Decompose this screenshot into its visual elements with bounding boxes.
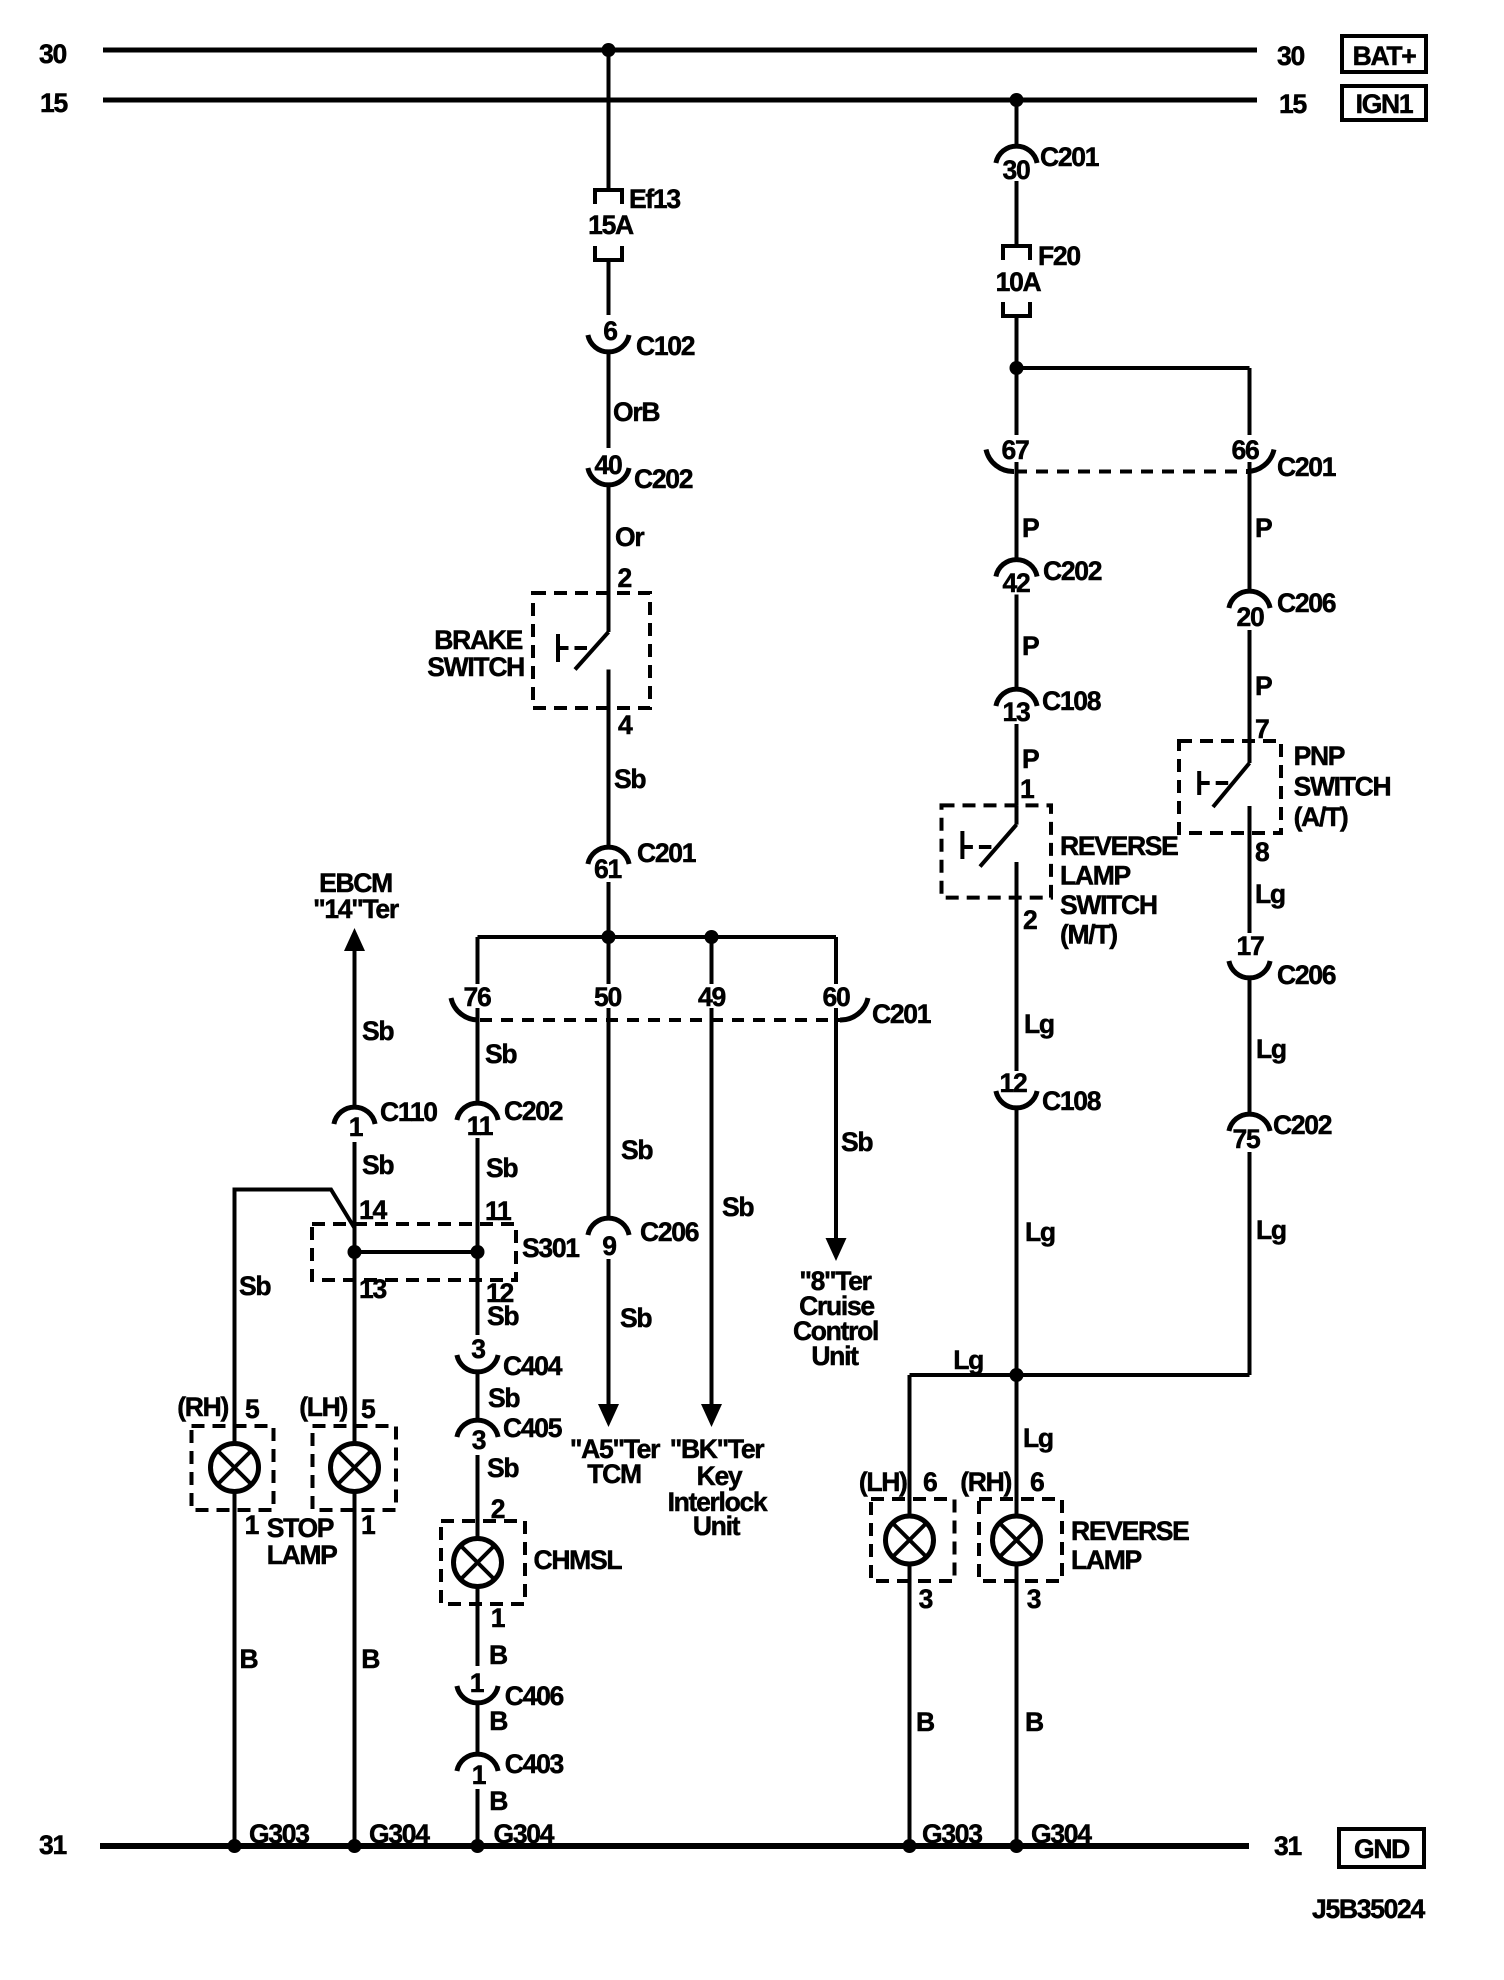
svg-text:15: 15 <box>1279 89 1306 119</box>
wire Sb: C201 pin 49 to key interlock unit <box>710 1020 714 1405</box>
svg-text:B: B <box>240 1644 258 1674</box>
svg-text:C404: C404 <box>503 1351 563 1381</box>
svg-text:Lg: Lg <box>1256 1215 1286 1245</box>
connector C202 pin 11 <box>457 1103 498 1120</box>
connector C206 pin 17 <box>1229 961 1270 978</box>
wire P: C202 pin 42 to C108 pin 13 <box>1015 595 1019 690</box>
wire: junction to C201 pin 67 <box>1015 368 1019 435</box>
svg-text:Lg: Lg <box>953 1345 983 1375</box>
svg-text:F20: F20 <box>1038 241 1080 271</box>
svg-text:Lg: Lg <box>1025 1217 1055 1247</box>
wire Sb: S301 pin 12 to connector C404 pin 3 <box>476 1252 480 1335</box>
svg-text:LAMP: LAMP <box>1071 1545 1141 1575</box>
wire Sb: C404 to C405 pin 3 <box>476 1372 480 1420</box>
svg-text:(A/T): (A/T) <box>1294 802 1348 832</box>
connector C102 pin 6 <box>588 335 629 352</box>
connector C202 pin 75 <box>1229 1114 1270 1131</box>
PNP switch (box) <box>1179 741 1281 833</box>
svg-text:11: 11 <box>467 1111 493 1141</box>
svg-text:G304: G304 <box>494 1819 555 1849</box>
node: tap on rail 30 feeding fuse Ef13 <box>602 43 616 57</box>
svg-text:C202: C202 <box>634 464 693 494</box>
svg-text:Sb: Sb <box>486 1153 518 1183</box>
svg-text:3: 3 <box>471 1334 485 1364</box>
wire: bus to C201 pin 50 <box>607 937 611 984</box>
svg-text:15: 15 <box>40 88 67 118</box>
svg-text:PNP: PNP <box>1294 741 1345 771</box>
svg-text:J5B35024: J5B35024 <box>1312 1894 1425 1924</box>
svg-text:67: 67 <box>1002 435 1029 465</box>
svg-text:11: 11 <box>485 1196 511 1226</box>
svg-text:1: 1 <box>491 1603 505 1633</box>
bus 31 (GND rail) <box>100 1843 1249 1849</box>
wire: bus to C201 pin 76 <box>476 937 480 984</box>
box BAT+ <box>1342 36 1426 72</box>
wire: rail 30 to fuse Ef13 <box>607 50 611 190</box>
node: reverse lamp feed junction <box>1010 1368 1024 1382</box>
svg-text:1: 1 <box>472 1760 486 1790</box>
svg-text:1: 1 <box>1020 774 1034 804</box>
CHMSL lamp bulb <box>454 1539 502 1587</box>
svg-text:50: 50 <box>594 982 621 1012</box>
svg-text:Sb: Sb <box>620 1303 652 1333</box>
wire B: C403 to ground G304 <box>476 1789 480 1846</box>
svg-text:LAMP: LAMP <box>267 1540 337 1570</box>
svg-text:Lg: Lg <box>1256 1034 1286 1064</box>
svg-text:C110: C110 <box>380 1097 437 1127</box>
svg-text:G304: G304 <box>1031 1819 1092 1849</box>
svg-text:TCM: TCM <box>587 1459 641 1489</box>
bus 15 (IGN1 rail) <box>103 98 1257 103</box>
svg-text:61: 61 <box>594 854 621 884</box>
svg-text:Sb: Sb <box>722 1192 754 1222</box>
node: S301 splice right junction <box>471 1245 485 1259</box>
svg-text:(RH): (RH) <box>960 1467 1011 1497</box>
svg-text:30: 30 <box>1003 155 1030 185</box>
svg-text:Unit: Unit <box>811 1341 859 1371</box>
ground node G304 (CHMSL) <box>471 1839 485 1853</box>
svg-text:C201: C201 <box>1040 142 1099 172</box>
svg-text:"BK"Ter: "BK"Ter <box>670 1434 765 1464</box>
svg-text:30: 30 <box>39 39 66 69</box>
connector C201 (pins 76 50 49 60) <box>451 998 479 1020</box>
svg-text:49: 49 <box>698 982 725 1012</box>
reverse lamp switch (box) <box>942 805 1052 897</box>
reverse lamp LH (box) <box>871 1499 955 1581</box>
arrow to EBCM <box>344 928 365 951</box>
wire Lg: C108 pin 12 to reverse lamp junction <box>1015 1108 1019 1375</box>
svg-text:Sb: Sb <box>614 764 646 794</box>
svg-text:3: 3 <box>472 1425 486 1455</box>
wire: C201 pin 30 to fuse F20 <box>1015 181 1019 246</box>
svg-text:5: 5 <box>245 1394 259 1424</box>
wire Lg: C202 pin 75 down to junction bar <box>1248 1152 1252 1375</box>
svg-text:S301: S301 <box>522 1233 579 1263</box>
connector C108 pin 13 <box>996 689 1037 706</box>
wire: reverse lamp switch pin 2 to C108 pin 12 <box>1015 862 1019 1071</box>
svg-text:CHMSL: CHMSL <box>534 1545 623 1575</box>
svg-text:P: P <box>1022 744 1039 774</box>
connector C202 pin 42 <box>996 560 1037 577</box>
wire: splice bar inside S301 <box>355 1250 478 1254</box>
wire P: C206 pin 20 to PNP switch pin 7 <box>1248 630 1252 741</box>
wire: PNP branch joining junction bar <box>1017 1373 1250 1377</box>
svg-text:12: 12 <box>1000 1068 1027 1098</box>
wire B: CHMSL pin 1 to C406 pin 1 <box>476 1586 480 1666</box>
connector C403 pin 1 <box>457 1754 498 1771</box>
svg-text:C201: C201 <box>1277 452 1336 482</box>
wire P: C108 pin 13 to reverse lamp switch pin 1 <box>1015 724 1019 805</box>
svg-text:13: 13 <box>1003 697 1030 727</box>
ground node G304 (RH reverse lamp) <box>1010 1839 1024 1853</box>
wire B: RH reverse lamp pin 3 to ground G304 <box>1015 1564 1019 1847</box>
svg-text:Sb: Sb <box>487 1453 519 1483</box>
wire B: RH stop lamp pin 1 to ground G303 <box>233 1491 237 1846</box>
svg-text:1: 1 <box>361 1510 375 1540</box>
reverse lamp LH bulb <box>886 1516 934 1564</box>
svg-text:(RH): (RH) <box>177 1392 228 1422</box>
svg-text:G303: G303 <box>922 1819 982 1849</box>
wire Or: C202 to brake switch pin 2 <box>607 485 611 593</box>
svg-text:B: B <box>361 1644 379 1674</box>
svg-text:40: 40 <box>595 450 622 480</box>
wire Sb: C405 to CHMSL pin 2 <box>476 1455 480 1539</box>
svg-text:Sb: Sb <box>841 1127 873 1157</box>
svg-text:Sb: Sb <box>362 1016 394 1046</box>
svg-text:GND: GND <box>1354 1834 1410 1864</box>
svg-text:B: B <box>916 1707 934 1737</box>
svg-text:17: 17 <box>1237 931 1264 961</box>
svg-text:"14"Ter: "14"Ter <box>313 894 399 924</box>
wire Sb: C201 pin 50 to C206 pin 9 <box>607 1020 611 1218</box>
wire: PNP switch pin 8 to C206 pin 17 <box>1248 806 1252 933</box>
wire B: C406 to C403 pin 1 <box>476 1703 480 1754</box>
connector C206 pin 9 <box>588 1218 629 1235</box>
svg-text:SWITCH: SWITCH <box>1294 772 1391 802</box>
wire Sb: branch from S301 to RH stop lamp <box>235 1190 355 1445</box>
connector C202 pin 40 <box>588 468 629 485</box>
wire Sb: C110 to splice S301 pin 14 <box>353 1142 357 1252</box>
wire: rail 15 to connector C201 pin 30 <box>1015 100 1019 146</box>
wire: C201 pin 61 down to distribution bus <box>607 882 611 937</box>
reverse lamp RH bulb <box>993 1516 1041 1564</box>
wire P: C201 pin 67 to C202 pin 42 <box>1015 472 1019 560</box>
svg-text:OrB: OrB <box>613 397 659 427</box>
connector C405 pin 3 <box>457 1420 498 1437</box>
svg-text:C108: C108 <box>1042 1086 1101 1116</box>
bus 30 (BAT+ rail) <box>103 48 1257 53</box>
wire Lg: junction bar to LH reverse lamp <box>910 1373 1017 1377</box>
ground node G303 (LH reverse lamp) <box>903 1839 917 1853</box>
svg-text:66: 66 <box>1232 435 1259 465</box>
svg-text:C206: C206 <box>1277 588 1336 618</box>
svg-text:2: 2 <box>618 563 632 593</box>
connector C108 pin 12 <box>996 1091 1037 1108</box>
svg-text:C206: C206 <box>1277 960 1336 990</box>
reverse lamp switch contacts <box>1015 805 1019 824</box>
svg-text:6: 6 <box>1030 1467 1044 1497</box>
svg-text:C202: C202 <box>1043 556 1102 586</box>
wire: drop to C201 pin 66 <box>1248 368 1252 435</box>
wire Sb: C206 pin 9 to TCM terminal A5 <box>607 1259 611 1405</box>
connector C110 pin 1 <box>334 1107 375 1124</box>
svg-text:8: 8 <box>1255 837 1269 867</box>
svg-text:REVERSE: REVERSE <box>1071 1516 1189 1546</box>
svg-text:1: 1 <box>245 1510 259 1540</box>
svg-text:1: 1 <box>470 1668 484 1698</box>
svg-text:1: 1 <box>349 1112 363 1142</box>
arrow to TCM <box>598 1404 619 1427</box>
wire: junction across to pin 66 drop <box>1017 366 1250 370</box>
arrow to cruise control unit <box>826 1238 847 1261</box>
svg-text:C405: C405 <box>503 1413 562 1443</box>
svg-text:C206: C206 <box>640 1217 699 1247</box>
svg-text:C201: C201 <box>872 999 931 1029</box>
svg-text:Ef13: Ef13 <box>629 184 680 214</box>
svg-text:30: 30 <box>1277 41 1304 71</box>
svg-text:Sb: Sb <box>487 1301 519 1331</box>
svg-text:6: 6 <box>603 316 617 346</box>
svg-text:C201: C201 <box>637 838 696 868</box>
svg-text:C102: C102 <box>636 331 695 361</box>
svg-text:C202: C202 <box>504 1096 563 1126</box>
wire B: LH stop lamp pin 1 to ground G304 <box>353 1491 357 1846</box>
connector C201 (pins 67 66) <box>986 450 1014 472</box>
svg-text:Sb: Sb <box>488 1383 520 1413</box>
svg-text:(M/T): (M/T) <box>1060 920 1117 950</box>
stop lamp RH bulb <box>211 1444 259 1492</box>
svg-text:42: 42 <box>1003 568 1030 598</box>
svg-text:(LH): (LH) <box>859 1467 907 1497</box>
svg-text:3: 3 <box>1027 1584 1041 1614</box>
svg-text:G304: G304 <box>369 1819 430 1849</box>
PNP switch contacts <box>1248 741 1252 763</box>
svg-text:B: B <box>1025 1707 1043 1737</box>
wire Lg: junction to LH reverse lamp pin 6 <box>908 1375 912 1517</box>
connector C404 pin 3 <box>457 1355 498 1372</box>
node: tap on rail 15 feeding C201 pin 30 <box>1010 93 1024 107</box>
wire Lg: C206 pin 17 to C202 pin 75 <box>1248 978 1252 1114</box>
svg-text:75: 75 <box>1233 1124 1260 1154</box>
wire Lg: junction to RH reverse lamp pin 6 <box>1015 1375 1019 1517</box>
svg-text:P: P <box>1255 671 1272 701</box>
svg-text:31: 31 <box>39 1830 66 1860</box>
wire Sb: C201 pin 76 to C202 pin 11 <box>476 1020 480 1103</box>
svg-text:Sb: Sb <box>239 1271 271 1301</box>
svg-text:BAT+: BAT+ <box>1353 41 1417 71</box>
svg-text:P: P <box>1255 513 1272 543</box>
ground node G304 (LH stop lamp) <box>348 1839 362 1853</box>
svg-text:REVERSE: REVERSE <box>1060 831 1178 861</box>
ground node G303 (RH stop lamp) <box>228 1839 242 1853</box>
connector C201 pin 61 <box>588 847 629 864</box>
svg-text:C202: C202 <box>1273 1110 1332 1140</box>
svg-text:IGN1: IGN1 <box>1356 89 1413 119</box>
wire: bus to C201 pin 60 <box>834 937 838 984</box>
svg-text:C406: C406 <box>505 1681 564 1711</box>
distribution bus after brake switch <box>478 935 837 939</box>
wire: fuse F20 to junction <box>1015 316 1019 368</box>
box IGN1 <box>1342 86 1426 120</box>
wire: fuse Ef13 to connector C102 pin 6 <box>607 260 611 315</box>
connector C201 pin 30 <box>996 146 1037 163</box>
wire Sb: C202 pin 11 to splice S301 pin 11 <box>476 1138 480 1252</box>
svg-text:4: 4 <box>618 710 633 740</box>
svg-text:60: 60 <box>823 982 850 1012</box>
wire Sb: EBCM to connector C110 pin 1 <box>353 950 357 1107</box>
svg-text:SWITCH: SWITCH <box>427 652 524 682</box>
svg-text:Sb: Sb <box>621 1135 653 1165</box>
svg-text:9: 9 <box>602 1231 616 1261</box>
svg-text:STOP: STOP <box>267 1513 334 1543</box>
svg-text:13: 13 <box>359 1274 386 1304</box>
wire P: C201 pin 66 to C206 pin 20 <box>1248 472 1252 592</box>
stop lamp LH bulb <box>331 1444 379 1492</box>
wire: bus to C201 pin 49 <box>710 937 714 984</box>
node: bus junction at pin-49 wire <box>705 930 719 944</box>
svg-text:15A: 15A <box>588 210 634 240</box>
wire: brake switch pin 4 to connector C201 pin 61 <box>607 670 611 848</box>
svg-text:Lg: Lg <box>1023 1423 1053 1453</box>
svg-text:Sb: Sb <box>485 1039 517 1069</box>
svg-text:BRAKE: BRAKE <box>434 625 522 655</box>
svg-text:14: 14 <box>359 1195 387 1225</box>
fuse Ef13 15A <box>595 190 622 204</box>
svg-text:Lg: Lg <box>1255 879 1285 909</box>
brake switch (box) <box>533 593 650 708</box>
svg-text:P: P <box>1022 513 1039 543</box>
svg-text:SWITCH: SWITCH <box>1060 890 1157 920</box>
wire OrB: C102 to C202 <box>607 352 611 448</box>
fuse F20 10A <box>1003 246 1030 260</box>
svg-text:LAMP: LAMP <box>1060 861 1130 891</box>
wire: S301 pin 13 to LH stop lamp pin 5 <box>353 1252 357 1445</box>
reverse lamp RH (box) <box>979 1499 1062 1581</box>
svg-text:C403: C403 <box>505 1749 564 1779</box>
brake switch contacts <box>607 593 611 632</box>
svg-text:(LH): (LH) <box>299 1392 347 1422</box>
svg-text:C108: C108 <box>1042 686 1101 716</box>
svg-text:10A: 10A <box>996 267 1042 297</box>
svg-text:B: B <box>489 1706 507 1736</box>
arrow to key interlock unit <box>701 1404 722 1427</box>
svg-text:3: 3 <box>919 1584 933 1614</box>
CHMSL lamp (box) <box>441 1521 525 1604</box>
svg-text:B: B <box>489 1640 507 1670</box>
connector C206 pin 20 <box>1229 591 1270 608</box>
svg-text:31: 31 <box>1274 1831 1301 1861</box>
svg-text:G303: G303 <box>249 1819 309 1849</box>
node: S301 splice left junction <box>348 1245 362 1259</box>
svg-text:Sb: Sb <box>362 1150 394 1180</box>
svg-text:Lg: Lg <box>1024 1009 1054 1039</box>
svg-text:Or: Or <box>615 522 644 552</box>
svg-text:P: P <box>1022 631 1039 661</box>
splice S301 (box) <box>312 1224 516 1280</box>
connector C406 pin 1 <box>457 1686 498 1703</box>
wire B: LH reverse lamp pin 3 to ground G303 <box>908 1564 912 1847</box>
svg-text:5: 5 <box>361 1394 375 1424</box>
node: junction feeding pins 67 and 66 <box>1010 361 1024 375</box>
svg-text:20: 20 <box>1237 602 1264 632</box>
svg-text:6: 6 <box>923 1467 937 1497</box>
node: bus junction at pin-50 wire <box>602 930 616 944</box>
wire Sb: C201 pin 60 to cruise control unit <box>834 1020 838 1240</box>
svg-text:B: B <box>489 1786 507 1816</box>
svg-text:76: 76 <box>464 982 491 1012</box>
svg-text:Unit: Unit <box>693 1511 741 1541</box>
box GND <box>1339 1829 1424 1867</box>
svg-text:2: 2 <box>1023 905 1037 935</box>
